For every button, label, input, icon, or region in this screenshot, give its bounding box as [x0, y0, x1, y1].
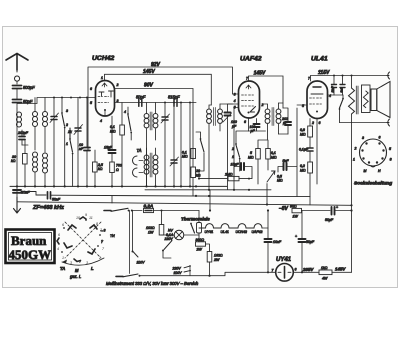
coil L1: [17, 112, 22, 127]
svg-text:MΩ: MΩ: [271, 155, 277, 159]
svg-text:11: 11: [89, 216, 93, 220]
svg-text:0,2: 0,2: [300, 164, 305, 168]
UAF42 diode plate: [250, 107, 256, 113]
capacitor 50pF: [13, 100, 22, 103]
coil L2 with core: [33, 112, 38, 127]
resistor 1kOhm 4W: [319, 270, 332, 275]
svg-text:0,1: 0,1: [110, 125, 115, 129]
svg-text:500pF: 500pF: [23, 85, 35, 90]
switch S2: [128, 115, 131, 131]
UAF42 cathode dot: [248, 112, 250, 114]
heater UAF42: [254, 224, 262, 228]
wire: [16, 89, 18, 100]
svg-text:0,1: 0,1: [271, 151, 276, 155]
svg-text:1: 1: [353, 157, 355, 161]
output transformer primary zigzag: [349, 88, 355, 114]
svg-text:–8V: –8V: [279, 206, 289, 212]
svg-text:1W: 1W: [148, 230, 154, 234]
svg-text:2: 2: [354, 147, 357, 151]
loudspeaker: [371, 89, 377, 111]
IF transformer 3 secondary: [276, 109, 281, 123]
resistor 5MOhm: [256, 149, 261, 160]
resistor 90 Ohm: [292, 208, 302, 212]
capacitor 10nF heater: [265, 239, 272, 242]
switch S1a: [62, 114, 65, 126]
svg-text:5: 5: [90, 101, 92, 105]
UL41 anode: [311, 93, 323, 95]
svg-text:kΩ: kΩ: [11, 159, 16, 163]
svg-text:8: 8: [96, 222, 98, 226]
coil L3: [43, 112, 48, 127]
svg-text:M: M: [75, 268, 79, 273]
wire: [180, 103, 182, 187]
dial rotary switch: [65, 222, 101, 258]
svg-text:TN: TN: [110, 234, 115, 238]
antenna: [6, 54, 28, 71]
svg-text:5nF: 5nF: [283, 159, 290, 163]
svg-text:205V: 205V: [302, 267, 314, 272]
bus line 4 sloped: [17, 202, 352, 206]
bus junction dots: [16, 185, 197, 187]
wire left rail down: [16, 108, 18, 186]
mains voltage selector: [132, 211, 134, 252]
capacitor 100pF cathode: [254, 124, 260, 127]
main ground bus: [10, 185, 227, 187]
svg-text:50µF: 50µF: [325, 218, 334, 222]
resistor 700 Ohm: [110, 162, 115, 173]
svg-text:UCH42: UCH42: [92, 55, 115, 62]
mains bottom switch: [116, 275, 123, 277]
capacitor 500pF: [13, 86, 22, 89]
svg-text:8: 8: [390, 158, 392, 162]
svg-text:2MΩ: 2MΩ: [224, 172, 233, 176]
svg-text:50pF: 50pF: [136, 95, 146, 100]
resistor 2,5kOhm: [93, 162, 98, 172]
svg-text:100Ω: 100Ω: [146, 226, 155, 230]
svg-text:90Ω: 90Ω: [290, 205, 297, 209]
coil L5: [43, 153, 48, 173]
svg-text:MΩ: MΩ: [248, 155, 254, 159]
svg-text:6: 6: [90, 87, 92, 91]
speaker field coil box: [362, 85, 371, 113]
IF2 core: [214, 108, 216, 126]
UL41 grid wire: [297, 104, 307, 106]
capacitor 50uF filter: [299, 239, 306, 242]
schematic paper sheet: [3, 27, 398, 288]
IF transformer 1 secondary: [153, 114, 158, 128]
IF transformer 1 primary: [144, 114, 149, 128]
capacitor 50uF electrolytic: [332, 207, 335, 215]
svg-text:450GW: 450GW: [9, 247, 52, 262]
UL41 heater mark: [313, 86, 321, 88]
svg-text:gez. L: gez. L: [70, 274, 81, 279]
svg-text:UY41: UY41: [205, 230, 214, 234]
resistor 100 Ohm 1W: [161, 211, 163, 225]
svg-text:Thermorelais: Thermorelais: [181, 216, 210, 221]
svg-text:MΩ: MΩ: [277, 179, 283, 183]
capacitor 5nF tone: [340, 85, 345, 88]
resistor 0,1MOhm det: [266, 149, 271, 160]
trimmer capacitor 2: [75, 128, 81, 131]
heater UY41: [206, 224, 214, 228]
capacitor 100pF IF2: [225, 113, 231, 116]
heater chain line: [199, 227, 206, 229]
mains line to UY41: [140, 272, 276, 275]
svg-text:4: 4: [100, 119, 102, 123]
trimmer capacitor osc: [162, 117, 168, 120]
svg-text:145V: 145V: [335, 267, 346, 272]
svg-text:110V: 110V: [137, 260, 146, 264]
heater UL41: [221, 224, 229, 228]
mains switch: [104, 210, 111, 212]
antenna coupling loop: [14, 70, 19, 81]
svg-text:200pF: 200pF: [17, 131, 29, 135]
svg-text:Braun: Braun: [11, 233, 47, 248]
svg-text:220V: 220V: [172, 267, 182, 271]
UCH42 anode: [109, 91, 114, 97]
svg-text:MΩ: MΩ: [300, 168, 306, 172]
svg-text:MΩ: MΩ: [182, 155, 188, 159]
svg-text:6: 6: [379, 136, 381, 140]
svg-text:9: 9: [85, 213, 87, 217]
svg-text:160Ω: 160Ω: [214, 253, 223, 257]
coil L4: [33, 152, 38, 172]
svg-text:2W: 2W: [213, 258, 220, 262]
svg-text:6: 6: [295, 268, 297, 272]
UAF42 cathode lead: [248, 118, 250, 131]
anode wire to transformer: [328, 94, 344, 96]
svg-text:700: 700: [116, 163, 122, 167]
svg-text:TA: TA: [137, 148, 142, 153]
svg-text:50nF: 50nF: [52, 198, 61, 202]
IF transformer 2 secondary: [218, 109, 223, 123]
UCH42 cathode dot: [104, 109, 106, 111]
svg-text:2: 2: [65, 123, 68, 127]
wire: [16, 81, 18, 84]
wire: [189, 103, 191, 187]
lamp series switch: [164, 241, 172, 250]
svg-text:0,2A: 0,2A: [144, 204, 154, 209]
capacitor 200pF IF3: [285, 122, 291, 125]
IF transformer 3 primary: [265, 109, 270, 123]
svg-text:NV: NV: [168, 228, 174, 232]
rotary small numbers: [57, 213, 105, 265]
ground symbol: [14, 197, 21, 213]
svg-text:2: 2: [231, 147, 234, 151]
trimmer capacitor: [51, 117, 57, 120]
detector network: switch: [236, 145, 240, 157]
svg-text:UCH42: UCH42: [236, 230, 248, 234]
IF1 core: [150, 112, 152, 130]
capacitor 5nF: [284, 163, 287, 170]
svg-text:50µF: 50µF: [306, 240, 315, 244]
rotary contacts: [64, 225, 97, 254]
UAF42 heater mark: [246, 85, 251, 89]
svg-text:10nF: 10nF: [22, 190, 31, 194]
svg-text:6: 6: [62, 223, 64, 227]
svg-text:1: 1: [232, 155, 234, 159]
svg-text:2W: 2W: [196, 248, 203, 252]
svg-text:UL41: UL41: [221, 230, 229, 234]
svg-text:kΩ: kΩ: [196, 173, 201, 177]
svg-text:4: 4: [124, 110, 126, 114]
svg-text:kΩ: kΩ: [98, 167, 103, 171]
Braun 450GW nameplate: [6, 230, 55, 264]
svg-text:4W: 4W: [322, 277, 328, 281]
svg-text:10nF: 10nF: [273, 240, 282, 244]
transformer core: [356, 86, 358, 114]
svg-text:1kΩ: 1kΩ: [321, 266, 328, 270]
svg-text:Sockelschaltung: Sockelschaltung: [354, 181, 392, 187]
output connector bottom: [387, 119, 390, 126]
svg-text:110V: 110V: [174, 271, 183, 275]
svg-text:MΩ: MΩ: [110, 129, 116, 133]
rotary extra contacts: [57, 217, 86, 262]
scale lamp: [174, 230, 184, 240]
trimmer IF2: [223, 113, 232, 122]
svg-text:1: 1: [62, 256, 64, 260]
svg-text:Ω: Ω: [116, 168, 119, 172]
svg-text:15µF: 15µF: [104, 145, 113, 149]
svg-text:Meßinstrument 333 Ω/V, 30V bzw: Meßinstrument 333 Ω/V, 30V bzw 300V – Be…: [106, 281, 199, 286]
svg-text:0,8: 0,8: [300, 128, 305, 132]
svg-text:→8: →8: [100, 228, 106, 232]
resistor 20kOhm osc: [191, 149, 196, 159]
grid wire with IF caps: [115, 102, 197, 104]
svg-text:4: 4: [234, 99, 236, 103]
switch tone: [340, 99, 344, 108]
UY41 output 205V: [293, 271, 319, 273]
capacitor 10nF: [84, 148, 90, 151]
svg-text:5: 5: [389, 147, 391, 151]
switch S1b: [70, 128, 73, 152]
svg-text:3: 3: [362, 136, 364, 140]
output connector top: [387, 72, 390, 79]
resistor 160 Ohm 2W: [207, 252, 212, 263]
svg-text:10: 10: [76, 216, 80, 220]
UAF42 grid wires: [228, 94, 239, 108]
svg-text:2: 2: [311, 121, 314, 125]
svg-text:10nF: 10nF: [331, 86, 335, 93]
svg-text:pF: pF: [282, 121, 288, 125]
bus line 2: [145, 189, 271, 191]
svg-text:2: 2: [78, 260, 81, 264]
B+ rail down: [351, 123, 353, 273]
socket pins: [361, 142, 384, 163]
svg-text:1: 1: [101, 76, 103, 80]
svg-text:1: 1: [66, 142, 68, 146]
capacitor 10nF AF: [241, 163, 244, 170]
bus line 3 with 50nF: [21, 192, 46, 196]
svg-text:+: +: [336, 205, 338, 209]
UCH42 grids dashed: [98, 97, 109, 103]
wire grid line to UCH42: [17, 98, 96, 109]
svg-text:UAF42: UAF42: [252, 230, 263, 234]
svg-text:UL41: UL41: [311, 56, 328, 63]
bottom speaker line: [340, 122, 388, 124]
IF3 core: [272, 108, 274, 126]
capacitor 10nF bus: [16, 186, 18, 197]
oscillator coil pair: [144, 155, 149, 174]
svg-text:UAF42: UAF42: [240, 56, 262, 63]
UAF42 grids dashed: [242, 95, 254, 106]
secondary zigzag: [363, 91, 368, 108]
UL41 grids dashed: [310, 98, 322, 104]
svg-text:UY41: UY41: [276, 257, 292, 263]
resistor 2MOhm: [228, 176, 239, 180]
svg-text:M: M: [364, 169, 367, 173]
svg-text:ZF=468 kHz: ZF=468 kHz: [32, 205, 64, 211]
svg-text:6: 6: [244, 120, 246, 124]
svg-text:145V: 145V: [254, 70, 266, 76]
switch S3: [201, 140, 205, 152]
padder capacitor: [171, 160, 177, 163]
svg-text:1W: 1W: [293, 215, 299, 219]
rotary pointer arc: [62, 258, 104, 265]
svg-text:6: 6: [319, 121, 321, 125]
svg-text:5nF: 5nF: [340, 87, 344, 92]
svg-text:5: 5: [250, 151, 252, 155]
capacitor 10nF tone: [332, 85, 337, 88]
UCH42 heater mark: [102, 83, 107, 87]
svg-text:3: 3: [66, 109, 68, 113]
potentiometer 0,5MOhm volume: [267, 171, 275, 182]
svg-text:TA: TA: [60, 266, 65, 271]
svg-text:90V: 90V: [144, 83, 154, 89]
svg-text:6: 6: [58, 233, 60, 237]
svg-text:4: 4: [57, 247, 59, 251]
svg-text:2: 2: [116, 83, 119, 87]
UL41 cathode dot: [316, 111, 318, 113]
socket diagram circle: [360, 139, 387, 166]
svg-text:15µF: 15µF: [231, 163, 240, 167]
heater UCH42: [238, 224, 246, 228]
UL41 cathode lead: [316, 119, 318, 185]
svg-text:+: +: [295, 235, 297, 239]
svg-text:MΩ: MΩ: [300, 132, 306, 136]
IF transformer 2 primary: [207, 109, 212, 123]
